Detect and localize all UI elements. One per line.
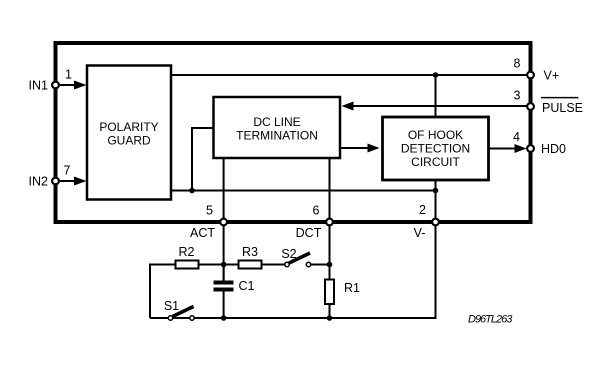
- wire IN1 to polarity guard: [56, 84, 77, 86]
- svg-text:V-: V-: [414, 226, 426, 240]
- node junction bottom rail left: [221, 315, 227, 321]
- svg-text:S1: S1: [164, 299, 179, 313]
- arrowhead IN1: [74, 81, 87, 90]
- node junction on V+ wire: [433, 72, 439, 78]
- node junction lower wire: [433, 188, 439, 194]
- svg-text:R1: R1: [344, 281, 360, 295]
- svg-text:R2: R2: [179, 245, 195, 259]
- polarity guard block U1: [87, 66, 171, 200]
- wire C1 to bottom rail: [223, 292, 225, 319]
- switch S2: [285, 262, 289, 266]
- svg-text:GUARD: GUARD: [107, 134, 151, 148]
- svg-text:DCT: DCT: [296, 226, 322, 240]
- wire polarity guard to V+ pin 8: [171, 74, 528, 76]
- wire dc line termination to off hook block: [340, 147, 370, 149]
- wire left branch up to R2: [150, 265, 176, 319]
- svg-text:HD0: HD0: [541, 142, 566, 156]
- arrowhead IN2: [74, 177, 87, 186]
- wire R2 to node: [199, 264, 239, 266]
- svg-text:V+: V+: [544, 69, 560, 83]
- svg-text:R3: R3: [242, 245, 258, 259]
- svg-text:5: 5: [206, 204, 213, 218]
- node junction at stub: [189, 188, 195, 194]
- capacitor C1: [223, 265, 225, 281]
- wire R1 to bottom rail: [329, 304, 331, 318]
- arrowhead at HD0 pin: [515, 144, 527, 153]
- wire dc line termination to ACT pin 5: [223, 158, 225, 222]
- wire ACT pin down to RC network: [223, 222, 225, 281]
- svg-text:C1: C1: [239, 279, 255, 293]
- svg-text:IN2: IN2: [29, 175, 49, 189]
- svg-text:7: 7: [64, 164, 71, 178]
- svg-text:IN1: IN1: [29, 79, 49, 93]
- pin 8 V+ circle: [527, 72, 534, 79]
- resistor R1: [325, 280, 334, 305]
- wire stub up to dc line termination: [192, 128, 214, 191]
- resistor R2: [176, 261, 199, 269]
- node junction ACT/R2/R3/C1: [221, 262, 227, 268]
- svg-text:PULSE: PULSE: [542, 101, 583, 115]
- svg-text:8: 8: [514, 57, 521, 71]
- wire V- pin down and bottom rail: [150, 222, 436, 318]
- pin IN1 circle: [52, 82, 59, 89]
- node junction DCT/S2/R1: [327, 262, 333, 268]
- svg-text:1: 1: [65, 68, 72, 82]
- svg-text:3: 3: [514, 89, 521, 103]
- wire off hook block bottom to V- pin 2: [435, 180, 437, 222]
- pin 3 PULSE circle: [527, 103, 534, 110]
- wire dc line termination to DCT pin 6: [329, 158, 331, 222]
- svg-text:ACT: ACT: [190, 226, 215, 240]
- svg-text:D96TL263: D96TL263: [468, 313, 513, 325]
- node junction bottom rail right: [327, 315, 333, 321]
- pin IN2 circle: [52, 178, 59, 185]
- wire V+ node down to off hook block top: [435, 75, 437, 117]
- resistor R3: [239, 261, 262, 269]
- wire R3 to switch S2: [262, 264, 285, 266]
- svg-text:DETECTION: DETECTION: [401, 142, 470, 156]
- wire off hook block to HD0 pin 4: [489, 148, 521, 150]
- arrowhead into dc line termination: [342, 102, 354, 111]
- wire IN2 to polarity guard: [56, 180, 77, 182]
- pin 4 HD0 circle: [527, 145, 534, 152]
- off hook detection circuit block U3: [383, 117, 489, 180]
- dc line termination block U2: [214, 97, 341, 158]
- wire PULSE pin 3 to dc line termination: [348, 105, 528, 107]
- pin 5 ACT circle: [220, 219, 227, 226]
- svg-text:CIRCUIT: CIRCUIT: [411, 155, 460, 169]
- arrowhead into off hook block: [368, 144, 380, 153]
- svg-text:TERMINATION: TERMINATION: [236, 129, 318, 143]
- wire S2 to DCT node: [311, 264, 330, 266]
- pin 2 V- circle: [432, 219, 439, 226]
- svg-text:6: 6: [313, 204, 320, 218]
- IC outer boundary box: [56, 43, 531, 222]
- svg-text:4: 4: [513, 130, 520, 144]
- svg-text:OF HOOK: OF HOOK: [408, 128, 463, 142]
- switch S1: [168, 316, 172, 320]
- svg-text:POLARITY: POLARITY: [99, 120, 158, 134]
- svg-text:2: 2: [419, 203, 426, 217]
- wire DCT pin down to network: [329, 222, 331, 280]
- pin 6 DCT circle: [326, 219, 333, 226]
- svg-text:S2: S2: [281, 247, 296, 261]
- svg-text:DC LINE: DC LINE: [253, 115, 300, 129]
- wire polarity guard lower output: [171, 190, 436, 192]
